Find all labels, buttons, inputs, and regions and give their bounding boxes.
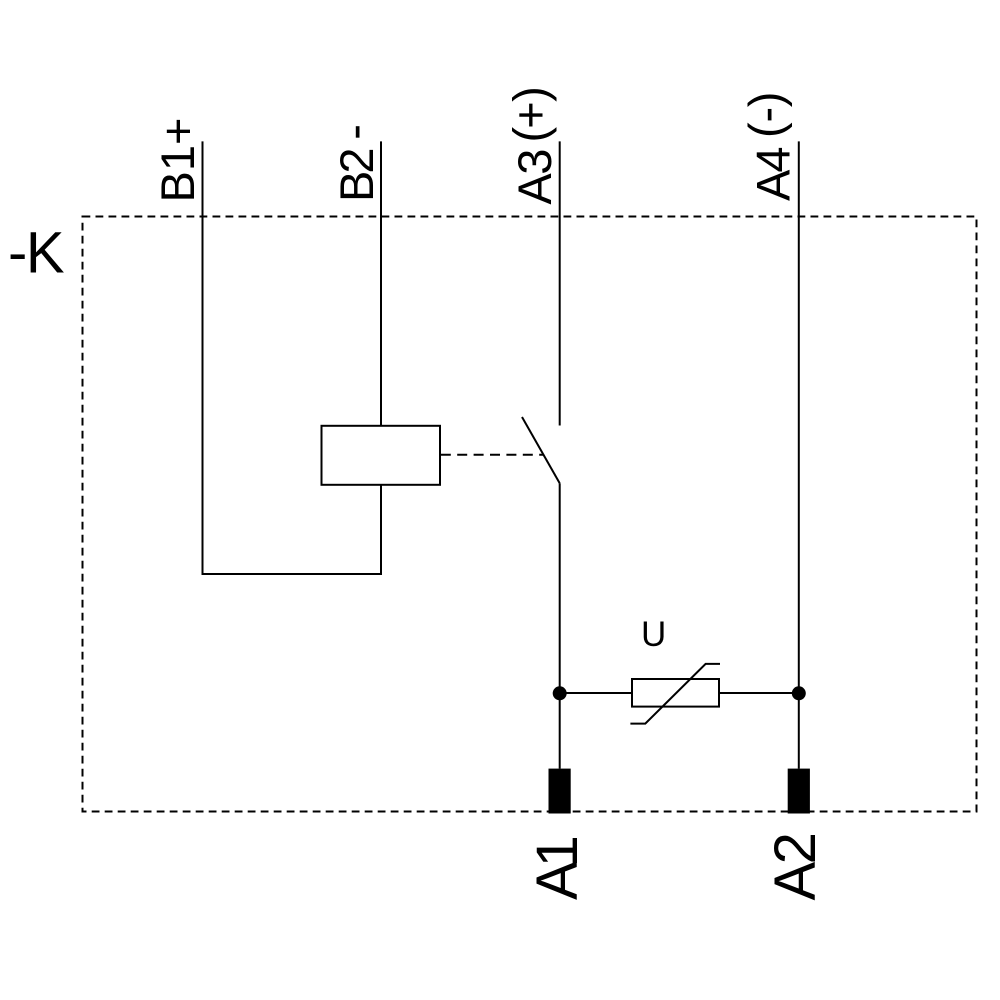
svg-text:A1: A1 bbox=[525, 835, 590, 900]
svg-text:B1+: B1+ bbox=[151, 118, 204, 203]
node junction dot A1 bbox=[553, 686, 567, 700]
enclosure dashed outline -K bbox=[83, 217, 977, 812]
mechanical link dashed wire bbox=[441, 454, 543, 456]
wire A3 lower to terminal A1 bbox=[559, 483, 561, 768]
svg-text:U: U bbox=[641, 615, 666, 654]
wire varistor to node A2 bbox=[719, 692, 799, 694]
node junction dot A2 bbox=[792, 686, 806, 700]
svg-text:A2: A2 bbox=[763, 832, 828, 900]
svg-text:A4 (-): A4 (-) bbox=[739, 92, 800, 201]
varistor U diagonal stroke bbox=[630, 664, 720, 724]
varistor U body bbox=[632, 679, 719, 707]
svg-text:B2 -: B2 - bbox=[327, 124, 383, 202]
terminal block A1 bbox=[549, 769, 571, 814]
contact blade NO switch bbox=[522, 417, 560, 483]
wire node A1 to varistor bbox=[560, 692, 632, 694]
svg-text:A3 (+): A3 (+) bbox=[504, 86, 562, 204]
wire A4 down to terminal A2 bbox=[798, 141, 800, 768]
wire A3 upper bbox=[559, 141, 561, 425]
wire B1 down and across to coil bottom bbox=[203, 141, 382, 574]
relay coil K bbox=[322, 426, 441, 485]
svg-text:-K: -K bbox=[8, 221, 65, 286]
wire B2 down to coil top bbox=[380, 141, 382, 426]
terminal block A2 bbox=[788, 769, 810, 814]
